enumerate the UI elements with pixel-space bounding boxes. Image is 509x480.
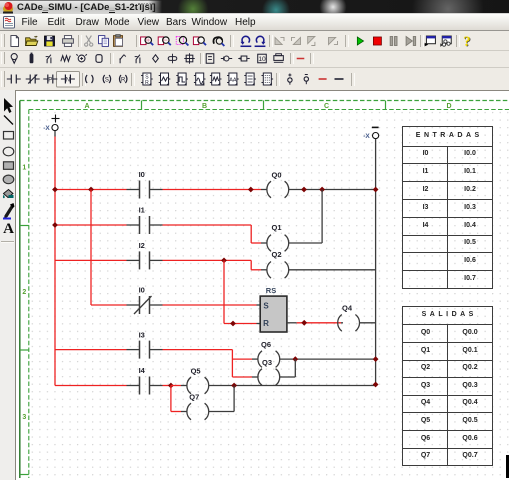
svg-text:S: S (105, 78, 109, 84)
svg-text:AA: AA (229, 78, 237, 84)
svg-text:Q6: Q6 (261, 340, 271, 349)
svg-text:-X: -X (43, 125, 50, 132)
svg-text:I0: I0 (139, 286, 145, 295)
svg-text:-X: -X (363, 133, 370, 140)
svg-text:S: S (263, 301, 269, 310)
svg-text:I4: I4 (139, 366, 146, 375)
svg-text:P: P (48, 78, 52, 84)
svg-text:2: 2 (22, 289, 26, 296)
svg-text:10: 10 (258, 56, 266, 63)
svg-text:I0: I0 (139, 170, 145, 179)
svg-text:A: A (3, 221, 14, 237)
svg-text:Q5: Q5 (191, 366, 201, 375)
svg-text:?: ? (463, 34, 470, 50)
svg-text:R: R (121, 78, 126, 84)
svg-text:I3: I3 (139, 330, 145, 339)
svg-text:B: B (202, 103, 207, 110)
svg-text:Q0: Q0 (271, 171, 281, 180)
svg-text:1: 1 (22, 165, 26, 172)
svg-text:Q1: Q1 (271, 223, 281, 232)
svg-text:Q2: Q2 (271, 250, 281, 259)
svg-text:3: 3 (22, 414, 26, 421)
svg-text:R: R (263, 319, 269, 328)
svg-text:C: C (324, 103, 329, 110)
svg-text:Q4: Q4 (342, 304, 353, 313)
svg-text:RS: RS (266, 286, 276, 295)
svg-text:Q7: Q7 (189, 393, 199, 402)
svg-text:A: A (84, 103, 89, 110)
svg-text:N: N (66, 78, 70, 84)
svg-text:D: D (446, 103, 451, 110)
svg-text:I2: I2 (139, 241, 145, 250)
svg-text:Q3: Q3 (262, 358, 272, 367)
svg-text:R: R (145, 80, 149, 86)
svg-text:I1: I1 (139, 206, 145, 215)
